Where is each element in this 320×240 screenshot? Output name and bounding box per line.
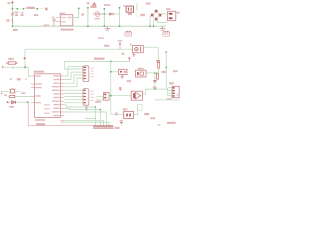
wire: J1 right xyxy=(146,72,159,74)
bridge rectifier B1 xyxy=(151,10,162,21)
label above J1 xyxy=(138,68,144,70)
node: top-left supply dot xyxy=(12,1,14,3)
ground symbol GND2 xyxy=(160,26,166,30)
label under rail left xyxy=(13,29,18,31)
label above Q1 xyxy=(123,108,128,110)
crystal/RTC box Q1 xyxy=(124,111,134,118)
component: varistor mark right end of row xyxy=(45,8,47,11)
wire: regulator input xyxy=(56,17,60,19)
junction dot rail left corner xyxy=(12,25,14,27)
connector X3 right xyxy=(172,86,179,97)
label B1 xyxy=(146,3,151,5)
connector CON-A small top xyxy=(125,32,132,36)
driver Q2 box xyxy=(104,93,110,101)
wire: long vertical x=110.8 xyxy=(110,62,112,115)
capacitor C2 xyxy=(21,13,24,16)
wire: Q1 right up xyxy=(133,105,137,115)
wires IC1 right to connector B xyxy=(64,90,83,103)
wire: left input vertical xyxy=(12,3,14,26)
label below IC1 xyxy=(36,123,45,126)
jack W1 on mid net xyxy=(133,46,144,53)
wire: bridge left down to rail xyxy=(149,16,151,26)
label under relay xyxy=(128,13,132,15)
IC1 inner pin-name text right column xyxy=(52,75,60,116)
microcontroller IC1 box xyxy=(35,74,61,118)
pin mark left of relay xyxy=(124,5,125,6)
wire: long mid net y=49.2 xyxy=(25,48,133,50)
wire: RESET line into IC xyxy=(2,67,31,76)
jack J1 xyxy=(136,70,147,77)
label above X3 xyxy=(169,82,174,84)
label left of fuse xyxy=(6,19,9,22)
IC1 inner middle text marks xyxy=(44,104,50,114)
node: red tick on vertical xyxy=(24,57,26,59)
junction dots on top row xyxy=(12,8,14,10)
pin numbers right of SV-B xyxy=(91,91,94,101)
IC1 inner pin-name text left column xyxy=(35,75,41,103)
label texts above IC left xyxy=(10,78,12,80)
capacitor C6 mark xyxy=(119,88,122,91)
connector SV-B xyxy=(83,89,89,106)
wires into X3 xyxy=(146,88,172,96)
wires IC1 right to connector A xyxy=(64,66,83,87)
label right of X1 xyxy=(176,12,179,14)
label 1N4007 xyxy=(104,4,110,6)
wire: speaker right up to X3 net xyxy=(143,89,146,94)
label below D3 xyxy=(9,106,14,108)
label below regulator xyxy=(61,29,74,31)
label on mid net xyxy=(104,45,109,47)
connector CON-B small top xyxy=(163,32,170,36)
label above supply tap xyxy=(118,40,122,42)
label right of R4 xyxy=(161,71,166,73)
wires at S1 xyxy=(1,90,10,92)
supply arrow VCC xyxy=(128,57,130,61)
resistor R3 vertical xyxy=(158,62,160,68)
label F1 xyxy=(7,2,10,4)
capacitor C1 xyxy=(15,13,18,16)
resistor R2 xyxy=(10,96,15,98)
wire: bridge bottom down to rail xyxy=(153,20,155,26)
label CRKA text xyxy=(27,7,35,9)
tick below RESET line xyxy=(12,68,14,69)
label ~ + marks xyxy=(140,14,145,16)
resistor R9 above RESET line xyxy=(8,62,15,64)
node: output supply dot xyxy=(78,7,80,9)
label near C3 xyxy=(44,24,49,26)
wire: VCC feed net y=61.5 xyxy=(64,61,129,63)
capacitor C7 small xyxy=(120,121,123,125)
label below LED xyxy=(95,18,101,20)
label left of Q1 xyxy=(115,112,118,115)
wire: X1 pin2 to bridge bottom xyxy=(157,21,167,23)
node: junction at pink corner xyxy=(27,101,29,103)
diode D2 xyxy=(104,13,119,16)
wire: vline x104.3 to rail xyxy=(103,9,105,26)
label bottom right xyxy=(167,122,176,124)
label right of S1 xyxy=(21,92,26,94)
wire: drop to IC area xyxy=(64,62,83,70)
capacitor C3 (bulk cap left of regulator) xyxy=(52,17,56,27)
wire: vline x136.9 xyxy=(136,3,138,10)
wire: W1 right to chain xyxy=(143,47,158,60)
label above IC1 xyxy=(34,71,44,73)
label above X1 xyxy=(166,8,171,10)
label +9V small xyxy=(86,2,89,4)
label R9 xyxy=(8,58,14,60)
LED D1 circle xyxy=(93,12,105,17)
wire: top right faint xyxy=(155,99,180,101)
supply symbol top xyxy=(93,3,96,5)
ground symbol GND3 xyxy=(121,75,124,79)
pin mark above W1 xyxy=(130,44,131,46)
wire: GND rail y=26 xyxy=(13,25,167,27)
wire: +5V drop to X3 xyxy=(165,53,167,89)
net loop box xyxy=(138,105,143,111)
regulator inner pin text xyxy=(61,17,66,18)
faint label left of supply tap xyxy=(98,37,104,39)
voltage regulator IC5 box xyxy=(60,15,73,26)
label top right of X3 xyxy=(173,70,178,72)
label left of R2 xyxy=(4,94,7,96)
label above regulator xyxy=(59,13,65,15)
label right of C5 xyxy=(153,86,157,88)
label OUT xyxy=(81,14,84,16)
label 250V xyxy=(13,11,18,13)
IC1 left pin stubs xyxy=(31,76,35,103)
wire: X1 pin1 to bridge xyxy=(162,13,168,15)
fuse F1 on vertical wire xyxy=(11,19,14,24)
capacitor C4 vertical xyxy=(157,60,160,61)
wire: vline x119.5 to rail xyxy=(119,8,121,26)
wire: drop from J1 net xyxy=(154,73,156,89)
varistor mark on vertical wire xyxy=(11,13,14,16)
terminal block X1 xyxy=(168,11,176,20)
label near W1 lower left xyxy=(122,53,125,55)
speaker LS1 xyxy=(131,91,142,100)
label value text xyxy=(34,14,38,16)
label +5V right xyxy=(144,113,149,115)
wire: regulator output up xyxy=(73,9,79,18)
resistor R4 vertical xyxy=(156,74,158,80)
tiny label below xyxy=(157,124,160,126)
wire: x110.8 to crystal xyxy=(111,113,124,115)
2-pin connector CON-D xyxy=(119,69,128,74)
wire: mid net corner down xyxy=(24,49,26,69)
wire: faint top row y=8.8 xyxy=(13,8,46,10)
relay K1 dark box xyxy=(126,6,133,12)
hline feeding IC bottom wires xyxy=(60,119,64,121)
supply tap arrow on mid net xyxy=(119,43,121,49)
label below SV-B xyxy=(85,106,87,111)
node: dot left edge xyxy=(1,93,2,94)
junction on VCC net xyxy=(110,61,112,63)
connector SV-A xyxy=(83,66,89,82)
label on VCC net xyxy=(94,58,104,60)
capacitor C5 on drop wire xyxy=(153,80,156,81)
IC1 right pin stubs xyxy=(60,76,64,116)
diode D3 on lower-left net xyxy=(8,101,29,103)
pin numbers right of SV-A xyxy=(91,68,94,78)
wire: red net L-shape xyxy=(28,102,111,125)
wires: IC to LCD connector xyxy=(64,105,109,126)
wire: vertical from +9V to rail xyxy=(87,8,89,26)
pushbutton S1 xyxy=(10,89,16,93)
wire: Q2 to speaker xyxy=(109,95,131,97)
ground symbol below W1 xyxy=(132,53,135,56)
wire: stub to CON-D xyxy=(111,71,119,73)
label 7805 text xyxy=(90,6,96,8)
label right of GND3 xyxy=(127,80,131,82)
label right of SV2 xyxy=(114,127,119,129)
ground symbol GND1 xyxy=(105,26,111,30)
label below Q2 xyxy=(95,101,101,103)
LCD connector SV2 comb xyxy=(94,125,113,128)
pin stub regulator in2 xyxy=(56,21,60,23)
